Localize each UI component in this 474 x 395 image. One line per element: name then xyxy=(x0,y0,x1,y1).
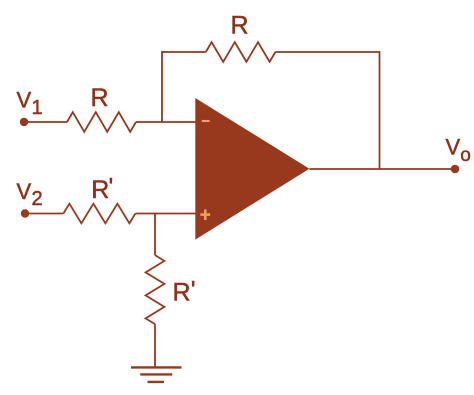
svg-text:': ' xyxy=(191,277,196,305)
wire R' to ground xyxy=(154,324,156,367)
svg-text:V: V xyxy=(17,88,32,113)
wire R' to op-amp non-inverting input xyxy=(135,213,196,215)
wire output xyxy=(309,168,455,170)
node V1 terminal dot xyxy=(20,118,28,126)
svg-text:R: R xyxy=(173,279,191,307)
resistor R' (non-inverting input) xyxy=(63,204,135,224)
wire V2 to R' xyxy=(25,213,63,215)
node V2 terminal dot xyxy=(21,209,29,217)
op-amp non-inverting pin marker + xyxy=(200,209,210,220)
op-amp inverting pin marker - xyxy=(202,120,210,122)
svg-text:': ' xyxy=(109,174,114,202)
svg-text:R: R xyxy=(231,11,249,39)
svg-text:2: 2 xyxy=(32,188,43,210)
svg-text:V: V xyxy=(17,179,32,204)
svg-text:o: o xyxy=(460,145,471,166)
ground xyxy=(131,367,182,382)
wire V1 to R xyxy=(24,121,67,123)
svg-text:R: R xyxy=(91,84,109,112)
wire R to op-amp inverting input xyxy=(136,121,196,123)
svg-text:R: R xyxy=(91,176,109,204)
op-amp U1 xyxy=(195,98,309,240)
wire junction down to R' shunt xyxy=(154,214,156,256)
resistor R (feedback) xyxy=(206,42,276,62)
svg-text:1: 1 xyxy=(32,97,43,119)
resistor R (inverting input) xyxy=(67,112,136,132)
node Vo terminal dot xyxy=(451,165,460,174)
wire feedback left vertical xyxy=(162,52,206,122)
resistor R' (shunt to ground) xyxy=(146,255,165,324)
svg-text:V: V xyxy=(446,135,461,160)
wire feedback top right and right vertical xyxy=(275,52,379,169)
